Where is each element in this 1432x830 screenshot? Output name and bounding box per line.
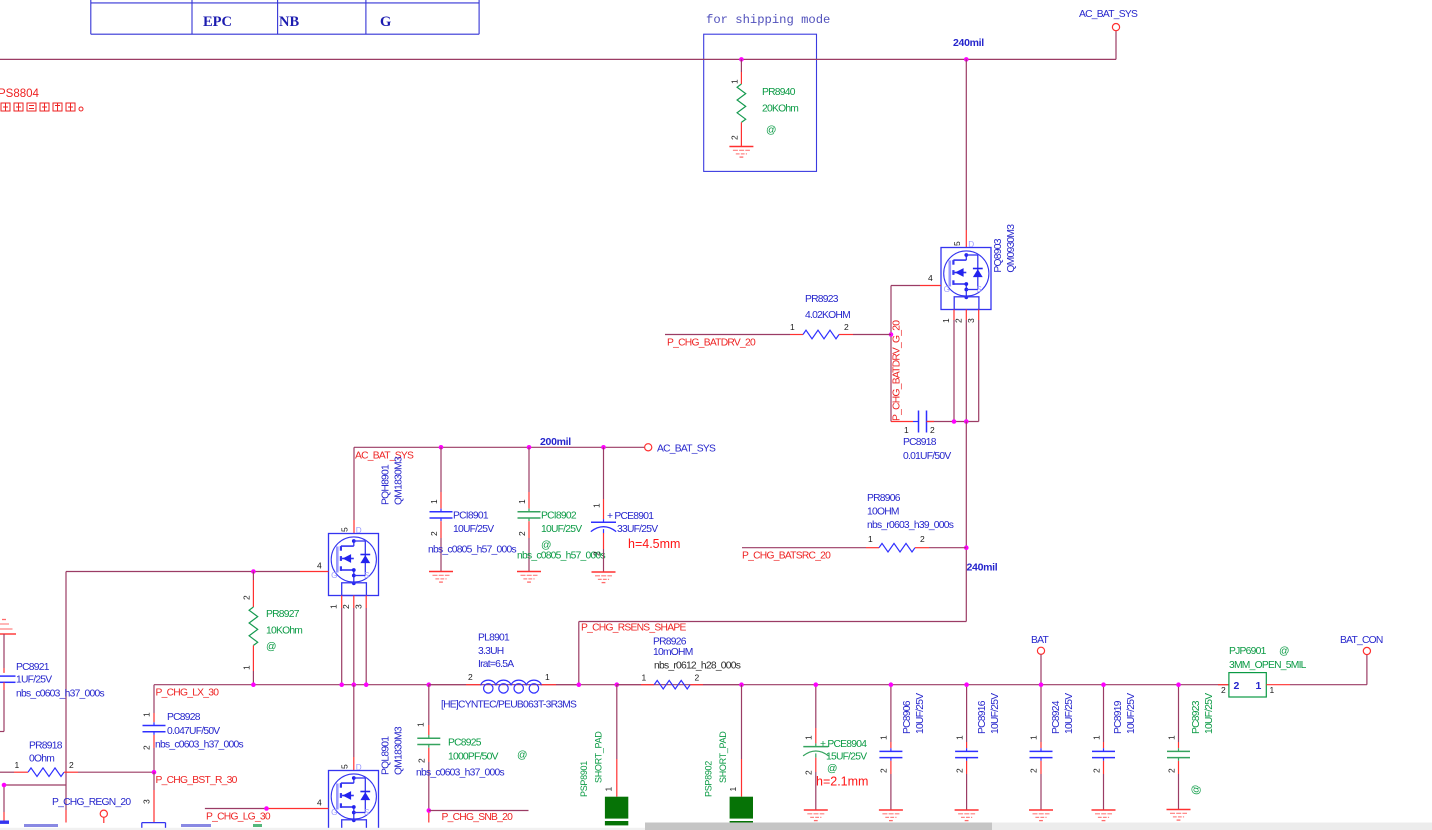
svg-text:PSP8901: PSP8901 [579,761,589,797]
svg-text:2: 2 [142,745,152,750]
svg-text:PJP6901: PJP6901 [1229,646,1267,657]
svg-text:P_CHG_RSENS_SHAPE: P_CHG_RSENS_SHAPE [581,623,686,634]
svg-text:1000PF/50V: 1000PF/50V [448,752,499,763]
svg-text:1: 1 [416,722,426,727]
label 200mil [540,436,571,448]
junction source-cap b [964,419,969,424]
svg-text:1: 1 [1270,685,1275,695]
svg-text:P_CHG_SNB_20: P_CHG_SNB_20 [442,812,514,823]
svg-text:3.3UH: 3.3UH [478,646,504,657]
wire source node down to BATSRC junction [579,422,967,685]
ground inverted top-left [0,620,16,635]
node BAT_CON [1340,635,1383,655]
svg-text:4: 4 [317,798,322,808]
svg-text:2: 2 [429,531,439,536]
wire P_CHG_SNB_20 [429,811,529,824]
ground under PCI8901 [429,572,453,583]
svg-text:@: @ [1279,646,1289,657]
svg-text:1: 1 [868,534,873,544]
svg-text:10UF/25V: 10UF/25V [453,524,494,535]
box shipping mode [704,34,817,171]
svg-text:PQH8901: PQH8901 [381,464,392,505]
note PS8804 [0,88,40,100]
svg-text:1: 1 [790,322,795,332]
svg-text:h=2.1mm: h=2.1mm [816,775,868,789]
junction PR8927 top [251,569,256,574]
label 240mil top [953,37,984,49]
svg-text:2: 2 [930,425,935,435]
svg-text:P_CHG_BATDRV_20: P_CHG_BATDRV_20 [667,338,756,349]
svg-text:PCI8902: PCI8902 [541,511,577,522]
node P_CHG_REGN_20 [100,810,107,823]
svg-text:@: @ [827,764,837,775]
svg-text:P_CHG_REGN_20: P_CHG_REGN_20 [52,797,131,808]
wire PR8923 pin2 to gate node [839,334,891,336]
ground under PC8916 [955,810,979,821]
pad PSP8902 SHORT_PAD [704,685,754,826]
svg-text:G: G [380,14,391,30]
svg-text:PR8940: PR8940 [762,87,796,98]
wire PQ8903 source pins 1-3 down [927,310,979,422]
svg-text:PR8918: PR8918 [29,741,63,752]
svg-text:1: 1 [517,499,527,504]
svg-text:P_CHG_LX_30: P_CHG_LX_30 [156,688,220,699]
svg-text:10UF/25V: 10UF/25V [915,693,926,734]
wire PR8940 pin2 [740,122,742,146]
ground under PCI8902 [517,572,541,583]
junction PC8906 [889,682,894,687]
ground under PC8906 [879,810,903,821]
wire AC_BAT_SYS mid rail [354,447,644,533]
svg-text:h=4.5mm: h=4.5mm [628,537,680,551]
svg-text:240mil: 240mil [967,562,998,574]
junction LX pqh pin2 [352,682,357,687]
svg-text:PC8919: PC8919 [1113,700,1124,734]
svg-text:1: 1 [642,673,647,683]
junction top rail at PQ8903 branch [964,57,969,62]
wire P_CHG_BATSRC_20 [742,548,879,562]
svg-text:AC_BAT_SYS: AC_BAT_SYS [1079,9,1138,20]
svg-text:10UF/25V: 10UF/25V [990,693,1001,734]
resistor PR8940 20KOhm [730,79,799,140]
junction left bottom [2,783,7,788]
inductor PL8901 3.3UH [429,633,579,711]
label P_CHG_REGN_20 [52,797,131,808]
wire PR8940 pin1 [740,59,742,84]
svg-text:2: 2 [242,595,252,600]
capacitor PC8925 1000PF/50V [416,685,528,823]
svg-text:NB: NB [279,14,299,30]
node BAT [1031,635,1049,685]
svg-text:1: 1 [1029,735,1039,740]
svg-text:5: 5 [340,527,350,532]
node AC_BAT_SYS top right [1079,9,1138,31]
ground under PC8924 [1029,810,1053,821]
svg-text:PL8901: PL8901 [478,633,510,644]
svg-text:nbs_c0603_h37_000s: nbs_c0603_h37_000s [16,689,104,700]
jumper PJP6901 3MM_OPEN_5MIL [1218,646,1307,697]
note for shipping mode [706,13,830,27]
svg-text:4: 4 [317,561,322,571]
wire vertical to PQ8903 drain [965,59,967,247]
svg-text:1: 1 [604,787,614,792]
svg-text:+ PCE8904: + PCE8904 [820,739,867,750]
svg-text:2: 2 [592,551,602,556]
svg-text:33UF/25V: 33UF/25V [617,524,658,535]
wire pin3 down to IC [142,772,155,822]
svg-text:1: 1 [329,604,339,609]
svg-text:EPC: EPC [203,14,232,30]
svg-text:3: 3 [966,318,976,323]
svg-text:2: 2 [844,322,849,332]
svg-text:Irat=6.5A: Irat=6.5A [478,659,514,670]
svg-text:1: 1 [142,712,152,717]
capacitor PC8928 0.047UF/50V [142,712,244,772]
junction LX pqh pin1 [339,682,344,687]
svg-text:PC8925: PC8925 [448,738,482,749]
svg-text:BAT: BAT [1031,635,1049,646]
label net P_CHG_RSENS_SHAPE [581,623,686,634]
svg-text:AC_BAT_SYS: AC_BAT_SYS [355,451,414,462]
wire PQ8903 gate pin4 [891,286,941,422]
junction PC8916 [964,682,969,687]
svg-text:@: @ [266,642,276,653]
svg-text:PC8916: PC8916 [977,700,988,734]
svg-text:1: 1 [1092,735,1102,740]
capacitor PC8924 10UF/25V [1029,685,1076,810]
transistor PQH8901 QM1830M3 [317,456,405,609]
svg-text:PC8921: PC8921 [16,662,50,673]
wire down to PQL8901 drain [353,685,355,771]
capacitor PCE8901 33UF/25V [591,447,681,572]
svg-text:15UF/25V: 15UF/25V [826,752,867,763]
svg-text:2: 2 [920,534,925,544]
svg-text:10UF/25V: 10UF/25V [541,524,582,535]
junction PCI8901 [439,445,444,450]
junction PCE8901 [601,445,606,450]
label AC_BAT_SYS red [355,451,414,462]
svg-text:10UF/25V: 10UF/25V [1126,693,1137,734]
svg-text:1: 1 [242,665,252,670]
svg-text:2: 2 [417,758,427,763]
svg-text:240mil: 240mil [953,37,984,49]
svg-text:0.01UF/50V: 0.01UF/50V [903,451,951,462]
capacitor PCI8902 10UF/25V [517,447,605,571]
wire P_CHG_BATDRV_20 [665,335,803,349]
junction gate node [889,332,894,337]
junction SNB [427,808,432,813]
svg-text:0.047UF/50V: 0.047UF/50V [167,726,220,737]
label net P_CHG_BATDRV_G_20 [892,320,903,421]
svg-text:@: @ [517,750,527,761]
svg-text:QM1830M3: QM1830M3 [394,726,405,775]
svg-text:1: 1 [728,787,738,792]
junction RSENS bottom [577,682,582,687]
svg-text:10OHM: 10OHM [867,507,899,518]
label 240mil lower [967,562,998,574]
junction PSP8902 tap [739,682,744,687]
svg-text:P_CHG_LG_30: P_CHG_LG_30 [206,812,271,823]
junction BATSRC [964,545,969,550]
svg-text:1: 1 [545,672,550,682]
svg-text:2: 2 [1234,680,1240,692]
capacitor PC8918 0.01UF/50V [891,411,951,463]
svg-text:1: 1 [1167,735,1177,740]
svg-text:PCI8901: PCI8901 [453,511,489,522]
svg-text:PR8923: PR8923 [805,294,839,305]
wire AC_BAT_SYS top rail [0,31,1116,60]
svg-text:PR8926: PR8926 [653,637,687,648]
capacitor PC8916 10UF/25V [955,685,1002,810]
svg-text:2: 2 [468,672,473,682]
junction BST node [152,770,157,775]
svg-text:[HE]CYNTEC/PEUB063T-3R3MS: [HE]CYNTEC/PEUB063T-3R3MS [441,700,577,711]
svg-text:1: 1 [955,735,965,740]
svg-text:1: 1 [730,79,740,84]
svg-text:PC8924: PC8924 [1051,700,1062,734]
svg-text:5: 5 [952,241,962,246]
svg-text:2: 2 [1221,685,1226,695]
capacitor PCI8901 10UF/25V [428,447,516,571]
junction PC8919 [1101,682,1106,687]
resistor PR8923 4.02KOHM [790,294,850,339]
wire P_CHG_LG_30 [205,809,329,823]
junction PSP8901 tap [615,682,620,687]
svg-text:4: 4 [928,273,933,283]
svg-text:10mOHM: 10mOHM [653,647,693,658]
ground under PR8940 [729,147,753,158]
svg-text:4.02KOHM: 4.02KOHM [805,310,850,321]
svg-text:SHORT_PAD: SHORT_PAD [594,731,604,783]
svg-text:@: @ [541,540,551,551]
ground under PCE8904 [804,810,828,821]
svg-text:PC8923: PC8923 [1191,700,1202,734]
svg-text:2: 2 [695,673,700,683]
svg-text:1: 1 [904,425,909,435]
capacitor PC8919 10UF/25V [1092,685,1138,810]
transistor PQL8901 QM1830M3 [317,726,405,830]
pad PSP8901 SHORT_PAD [579,685,628,826]
junction LX pqh pin3 [364,682,369,687]
junction source-cap a [952,419,957,424]
IC box corner bottom [142,823,166,830]
svg-text:QM1830M3: QM1830M3 [394,456,405,505]
svg-text:PC8906: PC8906 [902,700,913,734]
label P_CHG_BST_R_30 [156,775,238,786]
svg-text:1: 1 [941,318,951,323]
svg-text:AC_BAT_SYS: AC_BAT_SYS [657,444,716,455]
junction PCI8902 [527,445,532,450]
svg-text:3: 3 [142,799,152,804]
svg-text:for shipping mode: for shipping mode [706,13,830,27]
svg-text:BAT_CON: BAT_CON [1340,635,1383,646]
svg-text:2: 2 [69,760,74,770]
svg-text:P_CHG_BATSRC_20: P_CHG_BATSRC_20 [742,551,831,562]
svg-text:1: 1 [15,760,20,770]
capacitor PCE8904 15UF/25V [803,685,868,810]
svg-text:nbs_c0805_h57_000s: nbs_c0805_h57_000s [428,545,516,556]
junction LX at PC8925 [427,682,432,687]
svg-text:1UF/25V: 1UF/25V [16,675,52,686]
svg-text:QM0930M3: QM0930M3 [1006,224,1017,273]
svg-text:2: 2 [730,135,740,140]
node AC_BAT_SYS mid [645,444,716,455]
svg-text:10UF/25V: 10UF/25V [1204,693,1215,734]
resistor PR8918 0Ohm [0,741,154,777]
capacitor PC8921 1UF/25V [0,634,104,732]
svg-text:2: 2 [1029,768,1039,773]
svg-text:nbs_c0603_h37_000s: nbs_c0603_h37_000s [416,768,504,779]
svg-text:nbs_c0603_h37_000s: nbs_c0603_h37_000s [155,740,243,751]
svg-text:1: 1 [879,735,889,740]
svg-text:+ PCE8901: + PCE8901 [607,511,654,522]
svg-text:PR8906: PR8906 [867,493,901,504]
svg-text:1: 1 [804,735,814,740]
svg-text:2: 2 [879,768,889,773]
svg-text:PSP8902: PSP8902 [704,761,714,797]
svg-text:2: 2 [1167,768,1177,773]
ground under PC8923 [1167,810,1191,821]
svg-text:@: @ [1191,785,1202,795]
junction top rail at PR8940 [739,57,744,62]
svg-text:PC8928: PC8928 [167,712,201,723]
text fragments bottom edge [0,821,262,828]
svg-text:PS8804: PS8804 [0,88,40,100]
svg-text:2: 2 [1092,768,1102,773]
svg-text:3: 3 [354,604,364,609]
svg-text:P_CHG_BST_R_30: P_CHG_BST_R_30 [156,775,238,786]
ground under PCE8901 [592,572,616,583]
svg-text:10UF/25V: 10UF/25V [1064,693,1075,734]
junction PCE8904 [814,682,819,687]
svg-text:nbs_r0603_h39_000s: nbs_r0603_h39_000s [867,520,954,531]
svg-text:2: 2 [804,770,814,775]
resistor PR8927 10KOhm [242,572,303,685]
svg-text:PC8918: PC8918 [903,437,937,448]
svg-text:nbs_r0612_h28_000s: nbs_r0612_h28_000s [654,661,741,672]
svg-text:PQ8903: PQ8903 [993,238,1004,272]
svg-text:PR8927: PR8927 [266,609,300,620]
svg-text:SHORT_PAD: SHORT_PAD [718,731,728,783]
wire P_CHG_LX_30 rail [154,685,1229,713]
ground under PC8919 [1092,810,1116,821]
junction LG [264,806,269,811]
capacitor PC8906 10UF/25V [879,685,927,810]
svg-text:@: @ [766,125,776,136]
scrollbar bottom [0,823,1432,830]
resistor PR8906 10OHM [867,493,954,552]
wire PR8906 pin2 [915,547,966,549]
wire PQH8901 gate pin4 [66,572,329,786]
junction PC8924 [1039,682,1044,687]
svg-text:2: 2 [517,531,527,536]
svg-text:3MM_OPEN_5MIL: 3MM_OPEN_5MIL [1229,660,1307,671]
svg-text:10KOhm: 10KOhm [266,626,302,637]
svg-text:0Ohm: 0Ohm [29,754,54,765]
junction PC8923 [1176,682,1181,687]
wire stub left bottom [4,785,66,823]
wire jumper to BAT_CON [1266,655,1367,685]
capacitor PC8923 10UF/25V [1167,685,1216,810]
transistor PQ8903 QM0930M3 [928,224,1017,323]
svg-text:20KOhm: 20KOhm [762,104,798,115]
note chinese line [1,103,83,111]
svg-text:PQL8901: PQL8901 [381,736,392,775]
svg-text:2: 2 [954,318,964,323]
junction LX at PR8927 [251,682,256,687]
svg-text:2: 2 [341,604,351,609]
svg-text:5: 5 [340,764,350,769]
svg-text:200mil: 200mil [540,436,571,448]
svg-text:1: 1 [429,499,439,504]
svg-text:2: 2 [955,768,965,773]
table revision block top-left [91,0,479,34]
svg-text:1: 1 [592,503,602,508]
resistor PR8926 10mOHM [617,637,742,690]
wire PQH8901 pins down [342,596,367,685]
svg-text:1: 1 [1256,680,1262,692]
